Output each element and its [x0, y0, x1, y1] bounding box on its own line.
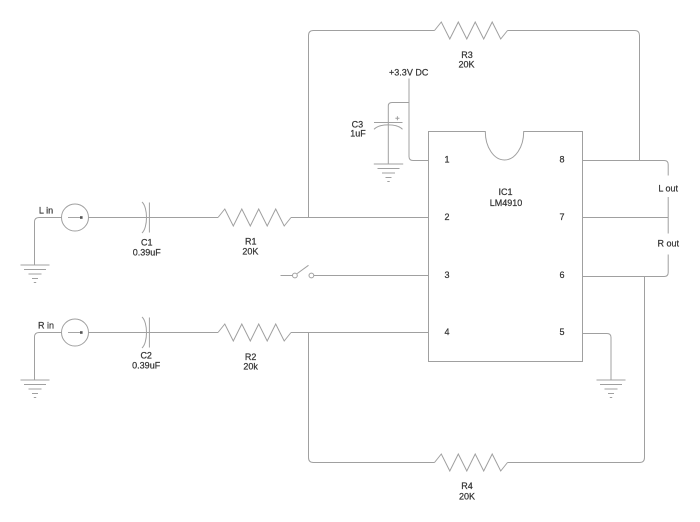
- wire: top loop right segment down to pin 8: [508, 31, 640, 161]
- resistor R4: [435, 454, 508, 471]
- wire: R2 to pin 4: [291, 332, 429, 334]
- wire: R in source to C2: [89, 332, 219, 334]
- svg-text:2: 2: [444, 212, 449, 222]
- svg-text:LM4910: LM4910: [490, 198, 523, 208]
- svg-text:1uF: 1uF: [350, 129, 366, 139]
- resistor R2: [218, 324, 291, 341]
- wire: pin 8 to L out terminal: [583, 161, 669, 218]
- svg-text:0.39uF: 0.39uF: [132, 361, 161, 371]
- wire: R out terminal down to pin 6: [583, 218, 669, 277]
- op-amp IC1 LM4910: [429, 132, 583, 362]
- wire: R in ground tail: [35, 333, 62, 381]
- svg-text:8: 8: [559, 155, 564, 165]
- capacitor C3: [374, 116, 403, 129]
- wire: L in ground tail: [35, 218, 62, 266]
- wire: supply jog to C3: [388, 103, 409, 165]
- wire: bottom loop left vertical (pin4 node down): [309, 333, 435, 463]
- wire: +3.3V DC supply vertical to pin 1: [409, 79, 429, 161]
- capacitor C2: [142, 317, 149, 348]
- svg-text:3: 3: [444, 270, 449, 280]
- svg-text:4: 4: [444, 327, 449, 337]
- wire: L in source to C1: [89, 217, 219, 219]
- ground: C3 bypass ground: [374, 164, 403, 182]
- capacitor C1: [142, 202, 149, 233]
- source: L in signal source: [62, 204, 89, 231]
- svg-text:0.39uF: 0.39uF: [133, 247, 162, 257]
- svg-text:IC1: IC1: [498, 187, 512, 197]
- svg-text:1: 1: [444, 155, 449, 165]
- resistor R3: [435, 22, 508, 39]
- svg-text:20k: 20k: [243, 362, 258, 372]
- source: R in signal source: [62, 319, 89, 346]
- svg-text:20K: 20K: [242, 246, 258, 256]
- resistor R1: [218, 209, 291, 226]
- wire: R1 to pin 2: [291, 217, 429, 219]
- svg-text:R1: R1: [245, 236, 257, 246]
- wire: switch to pin 3: [314, 275, 429, 277]
- svg-text:R in: R in: [38, 321, 54, 331]
- switch SW1: [281, 265, 314, 278]
- svg-text:20K: 20K: [458, 60, 474, 70]
- svg-text:R4: R4: [461, 481, 473, 491]
- svg-text:L out: L out: [658, 184, 678, 194]
- svg-text:L in: L in: [39, 206, 53, 216]
- svg-text:R3: R3: [461, 50, 473, 60]
- svg-text:7: 7: [559, 212, 564, 222]
- svg-text:6: 6: [559, 270, 564, 280]
- node L out: [654, 176, 683, 198]
- wire: pin 5 to ground: [583, 334, 612, 381]
- ground: R in source ground: [21, 380, 50, 398]
- svg-text:5: 5: [559, 327, 564, 337]
- wire: bottom loop right vertical (to pin 6 node): [508, 277, 645, 463]
- svg-text:+3.3V DC: +3.3V DC: [389, 68, 429, 78]
- svg-text:R out: R out: [657, 239, 679, 249]
- ground: L in source ground: [21, 265, 50, 283]
- node R out: [653, 234, 684, 255]
- svg-text:C2: C2: [140, 351, 152, 361]
- svg-text:C1: C1: [141, 237, 153, 247]
- svg-text:20K: 20K: [459, 492, 475, 502]
- wire: top feedback loop left vertical (pin2 node to top): [309, 31, 435, 218]
- ground: pin 5 ground: [597, 380, 626, 398]
- svg-text:R2: R2: [245, 352, 257, 362]
- wire: pin 7 to output node: [583, 217, 669, 219]
